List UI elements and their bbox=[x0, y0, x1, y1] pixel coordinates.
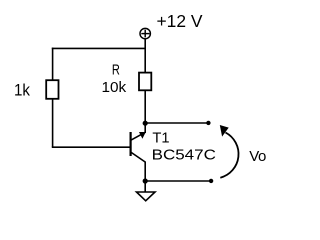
wire top horizontal bbox=[52, 47, 145, 49]
arc arrow Vo bbox=[220, 133, 238, 178]
wire left vertical upper bbox=[52, 48, 54, 81]
power terminal +12V circle bbox=[140, 28, 150, 38]
svg-text:R: R bbox=[112, 63, 120, 79]
wire collector vertical (R bottom to transistor) bbox=[144, 90, 146, 133]
junction dot collector node bbox=[143, 121, 148, 126]
wire base horizontal bbox=[52, 146, 131, 148]
resistor R 10k body bbox=[139, 73, 151, 91]
wire output bottom horizontal bbox=[145, 180, 211, 182]
ground symbol bbox=[137, 192, 156, 201]
junction dot emitter node bbox=[143, 178, 148, 183]
svg-text:10k: 10k bbox=[102, 80, 127, 96]
wire output top horizontal bbox=[145, 122, 208, 124]
transistor T1 collector diagonal bbox=[131, 152, 146, 162]
wire emitter vertical to ground bbox=[144, 162, 146, 193]
resistor R1 1k body bbox=[46, 80, 58, 99]
svg-text:BC547C: BC547C bbox=[152, 148, 216, 164]
svg-text:+12 V: +12 V bbox=[157, 11, 204, 31]
transistor T1 base bar bbox=[130, 132, 132, 156]
wire supply vertical (circle to R top) bbox=[144, 39, 146, 73]
terminal dot output bottom bbox=[209, 179, 213, 183]
svg-text:T1: T1 bbox=[152, 130, 169, 146]
wire left vertical lower bbox=[52, 99, 54, 147]
svg-text:1k: 1k bbox=[14, 81, 30, 100]
svg-text:Vo: Vo bbox=[249, 148, 266, 165]
terminal dot output top bbox=[206, 121, 210, 125]
transistor T1 emitter diagonal with arrow bbox=[131, 132, 146, 140]
